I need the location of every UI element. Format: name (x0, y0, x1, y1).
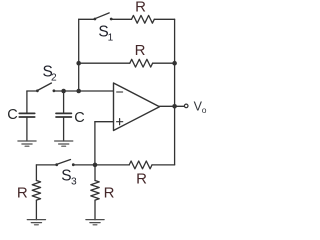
svg-text:R: R (135, 0, 146, 16)
node junction left bus / second branch (76, 61, 81, 66)
capacitor C2 (56, 113, 71, 117)
wire C1 bottom lead (26, 118, 28, 141)
resistor R2 second feedback (130, 59, 153, 67)
switch S2 (36, 83, 55, 92)
svg-text:R: R (104, 184, 115, 201)
wire top branch left segment (79, 18, 95, 20)
node junction C2 on inverting line (61, 89, 66, 94)
node output terminal Vo (184, 104, 188, 108)
wire C2 bottom lead (63, 118, 65, 141)
svg-text:R: R (17, 184, 28, 201)
wire C1 top lead (26, 91, 28, 113)
svg-text:2: 2 (51, 73, 57, 84)
wire bottom branch left segment (36, 164, 56, 166)
node junction non-inverting / bottom branch (93, 163, 98, 168)
node junction output / right bus (172, 104, 177, 109)
resistor R5 bottom middle to ground (91, 181, 99, 201)
switch S3 (55, 160, 74, 167)
switch S1 (94, 13, 113, 21)
wire R4 top lead (35, 165, 37, 181)
ground C1 (18, 141, 36, 146)
ground R5 (86, 220, 104, 225)
svg-text:o: o (202, 105, 207, 115)
svg-text:3: 3 (71, 176, 77, 187)
wire R5 top lead (94, 165, 96, 181)
wire S3 to node (73, 164, 129, 166)
op-amp U1 (114, 83, 160, 131)
wire C2 top lead (63, 91, 65, 113)
wire R3 to right bus (152, 164, 175, 166)
wire non-inverting vertical (94, 122, 96, 165)
wire R4 bottom lead (35, 200, 37, 219)
svg-text:R: R (136, 171, 147, 188)
wire S2 left corner (27, 90, 38, 92)
svg-text:R: R (135, 42, 146, 59)
svg-text:1: 1 (108, 33, 114, 44)
resistor R1 top feedback (132, 15, 155, 23)
node junction left bus on inverting line (76, 89, 81, 94)
ground C2 (55, 141, 73, 146)
wire R2 to right bus (153, 62, 175, 64)
wire second branch left segment (79, 62, 130, 64)
resistor R3 bottom feedback (129, 161, 152, 169)
ground R4 (27, 220, 45, 225)
resistor R4 bottom left to ground (32, 181, 40, 201)
wire op-amp output (160, 105, 185, 107)
wire S1 to R top (111, 18, 131, 20)
wire R5 bottom lead (94, 200, 96, 219)
wire inverting input line (54, 90, 114, 92)
capacitor C1 (19, 113, 34, 117)
wire non-inverting input line (95, 121, 114, 123)
svg-text:C: C (74, 110, 84, 126)
svg-text:C: C (7, 107, 17, 123)
node junction right bus / second branch (172, 61, 177, 66)
wire left vertical bus (78, 19, 80, 91)
wire R top to right bus (154, 18, 174, 20)
wire right vertical bus (174, 19, 176, 165)
